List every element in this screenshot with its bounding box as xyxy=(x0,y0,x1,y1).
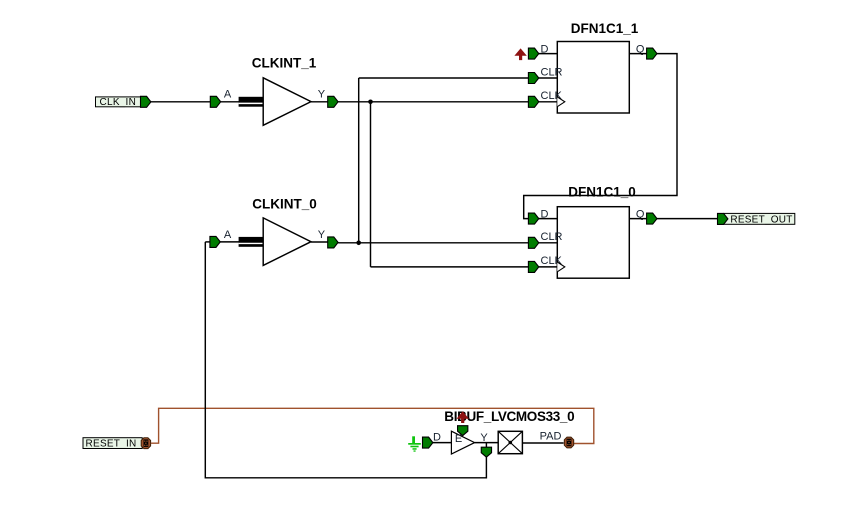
pin A of CLKINT_1 xyxy=(210,89,239,108)
port RESET_IN xyxy=(83,438,151,450)
svg-text:Y: Y xyxy=(318,229,326,241)
flip-flop DFN1C1_0 label xyxy=(568,184,636,199)
pin Y of CLKINT_0 xyxy=(311,229,338,248)
CLKINT_1 input bus bar xyxy=(239,97,264,107)
port RESET_OUT xyxy=(718,213,795,225)
wire net RST to DFN1C1_1 CLR xyxy=(359,77,529,79)
svg-text:CLKINT_0: CLKINT_0 xyxy=(252,196,317,211)
pin Y of CLKINT_1 xyxy=(311,89,338,108)
pin E of BIBUF xyxy=(455,426,468,445)
wire net CLK: CLKINT_1 Y to DFN1C1_1 CLK xyxy=(338,101,528,103)
wire net RESET_IN pad net (bidirectional) xyxy=(151,408,594,443)
wire net CLK to DFN1C1_0 CLK xyxy=(371,266,529,268)
flip-flop DFN1C1_0 body xyxy=(557,207,629,279)
pin PAD of BIBUF xyxy=(522,430,573,448)
pin Q of DFN1C1_0 xyxy=(629,208,657,224)
wire DFN1C1_0 Q to RESET_OUT xyxy=(657,218,718,220)
pin D of DFN1C1_1 xyxy=(528,43,557,59)
wire BIBUF Y to CLKINT_0 A xyxy=(205,242,486,478)
CLKINT_0 input bus bar xyxy=(239,237,264,247)
pin CLK of DFN1C1_1 xyxy=(528,90,564,107)
svg-text:Y: Y xyxy=(318,89,326,101)
buffer CLKINT_1 label xyxy=(252,56,317,71)
svg-text:D: D xyxy=(433,431,441,443)
wire net RST vertical rise xyxy=(358,78,360,243)
flip-flop DFN1C1_1 label xyxy=(571,21,639,36)
junction on net RST xyxy=(356,241,361,246)
svg-text:E: E xyxy=(455,433,462,445)
pin Y of BIBUF xyxy=(480,432,491,457)
wire net CLK vertical drop xyxy=(370,102,372,267)
svg-text:CLK_IN: CLK_IN xyxy=(100,97,137,108)
bibuf BIBUF_LVCMOS33_0 label xyxy=(444,409,574,424)
bibuf triangle xyxy=(451,431,474,454)
pin Q of DFN1C1_1 xyxy=(629,43,657,59)
pin D of DFN1C1_0 xyxy=(528,208,557,224)
ground symbol xyxy=(408,436,421,451)
svg-text:Y: Y xyxy=(480,432,488,444)
svg-text:CLR: CLR xyxy=(541,66,563,78)
svg-text:RESET_OUT: RESET_OUT xyxy=(730,215,792,226)
wire CLK_IN to CLKINT_1 A xyxy=(151,101,210,103)
flip-flop DFN1C1_1 body xyxy=(557,42,629,114)
pin CLR of DFN1C1_1 xyxy=(528,66,562,83)
buffer CLKINT_0 triangle xyxy=(263,218,311,266)
svg-text:DFN1C1_1: DFN1C1_1 xyxy=(571,21,639,36)
buffer CLKINT_0 label xyxy=(252,196,317,211)
svg-text:A: A xyxy=(224,89,232,101)
svg-text:RESET_IN: RESET_IN xyxy=(86,439,137,450)
svg-text:DFN1C1_0: DFN1C1_0 xyxy=(568,184,636,199)
pin D of BIBUF xyxy=(423,431,452,448)
pin CLR of DFN1C1_0 xyxy=(528,231,562,248)
wire net RST: CLKINT_0 Y to DFN1C1_0 CLR xyxy=(338,242,528,244)
junction on net CLK xyxy=(368,100,373,105)
wire BIBUF triangle to pad box xyxy=(475,442,499,444)
svg-text:PAD: PAD xyxy=(540,430,562,442)
buffer CLKINT_1 triangle xyxy=(263,78,311,126)
pin CLK of DFN1C1_0 xyxy=(528,255,564,272)
pin A of CLKINT_0 xyxy=(205,229,239,248)
svg-text:CLKINT_1: CLKINT_1 xyxy=(252,56,317,71)
pad box of BIBUF xyxy=(498,431,522,453)
wire net FB: DFN1C1_1 Q to DFN1C1_0 D xyxy=(524,54,677,219)
port CLK_IN xyxy=(96,96,151,108)
svg-text:CLR: CLR xyxy=(541,231,563,243)
svg-text:A: A xyxy=(224,229,232,241)
power tie-up at BIBUF E xyxy=(457,411,469,423)
power tie-up at DFN1C1_1 D xyxy=(514,48,526,60)
